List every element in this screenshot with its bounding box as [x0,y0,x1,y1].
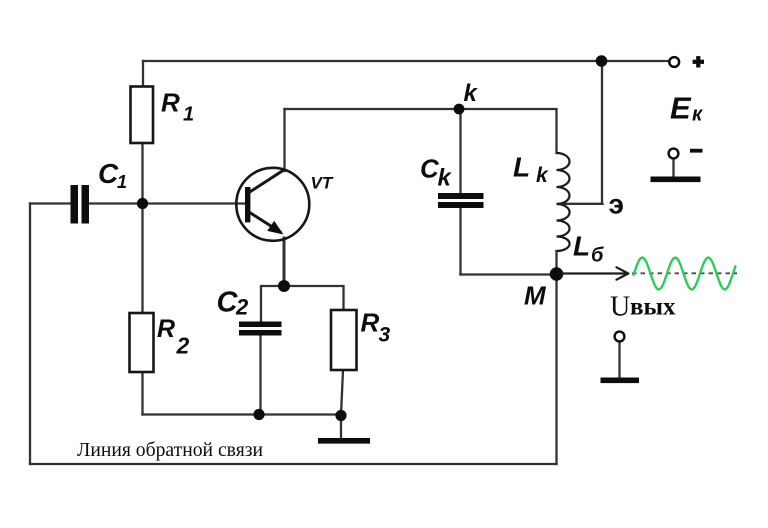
wire feedback left vertical [29,204,31,465]
resistor R2 [130,313,154,372]
svg-text:U: U [610,292,630,323]
wire R2 top [141,204,143,314]
node emitter junction [278,280,290,292]
svg-text:M: M [524,281,547,311]
node supply junction [596,55,608,67]
svg-text:3: 3 [379,324,391,347]
wire feedback bottom [30,463,557,465]
capacitor C2 plates [239,322,282,336]
node base junction [137,198,148,209]
terminal + circle [669,57,679,67]
svg-text:VT: VT [311,174,334,193]
wire feedback right vertical to node M [555,274,557,464]
svg-text:1: 1 [183,104,194,126]
sine axis dashed [632,272,737,274]
label plus [693,56,704,67]
svg-text:Линия обратной связи: Линия обратной связи [77,439,263,461]
svg-text:L: L [513,152,530,183]
svg-text:R: R [161,88,180,118]
svg-text:E: E [670,91,692,126]
svg-text:б: б [591,245,604,267]
svg-text:R: R [361,308,380,338]
wire R1 bottom to base node [141,143,143,204]
svg-text:к: к [692,104,703,126]
wire R3 bottom [341,370,343,415]
svg-text:э: э [609,189,624,220]
wire emitter vertical [283,238,286,286]
wire coil bottom stub [555,251,557,274]
resistor R3 [331,310,357,370]
output arrow [562,267,628,279]
svg-text:k: k [536,164,549,187]
wire Ck bottom [459,208,461,275]
wire minus terminal to ground [672,158,674,177]
wire bottom bias rail [143,413,342,415]
node C2 bottom junction [253,409,264,420]
ground output [601,378,640,384]
terminal output circle [615,332,625,342]
svg-text:вых: вых [630,294,676,321]
wire tank top [459,109,557,153]
node M junction [550,267,564,281]
wire collector horizontal to node k [285,108,460,110]
svg-text:R: R [157,315,175,343]
wire э vertical to supply junction [601,61,603,204]
wire C2 top [261,286,284,322]
svg-text:k: k [438,165,453,192]
transistor VT [236,168,309,241]
wire coil tap э [558,203,603,205]
svg-text:k: k [464,80,479,107]
node R3 bottom junction [335,410,346,421]
resistor R1 [131,87,154,144]
wire collector vertical [283,109,285,171]
capacitor Ck plates [438,193,484,208]
wire R3 top [284,286,344,310]
wire base (C1 to transistor) [89,202,247,204]
wire tank bottom to node M [461,273,557,275]
svg-text:C: C [98,158,119,189]
node k junction [454,104,465,115]
svg-text:2: 2 [176,333,190,359]
wire R3 ground stub [340,415,342,438]
inductor Lб (lower section, 3 turns) [557,204,570,251]
wire output terminal to ground [618,341,620,378]
terminal - circle [669,149,679,159]
wire C1 left [30,202,71,204]
label minus [690,149,703,153]
inductor Lk (upper section, 3 turns) [557,153,570,204]
wire R2 bottom [141,372,143,415]
capacitor C1 plates [71,185,90,224]
wire top supply rail [143,60,670,62]
svg-text:L: L [573,231,590,262]
wire Ck top [459,109,461,193]
sine wave [634,258,736,290]
ground R3 [318,438,370,444]
wire R1 top [142,61,144,87]
wire C2 bottom [259,334,261,415]
svg-text:2: 2 [235,295,249,320]
ground supply [651,177,701,183]
svg-text:1: 1 [117,172,127,192]
